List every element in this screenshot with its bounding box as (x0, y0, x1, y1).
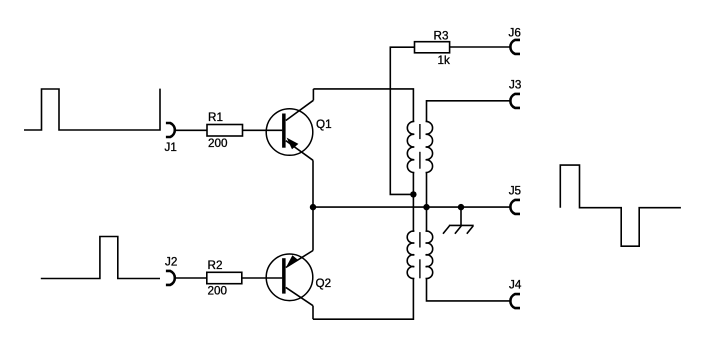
svg-text:J6: J6 (509, 27, 521, 40)
connector J2 (166, 271, 175, 285)
junction node emitters (310, 204, 316, 210)
svg-text:R2: R2 (208, 259, 223, 272)
wire R2 to Q2 base (242, 277, 282, 279)
center rail wire (emitters / secondary tap / ground / J5) (313, 206, 510, 208)
wire J2 to R2 (175, 277, 207, 279)
svg-text:200: 200 (208, 285, 228, 298)
svg-text:J4: J4 (509, 279, 522, 292)
wire Q2 collector to transformer primary bottom (313, 278, 413, 319)
svg-text:1k: 1k (438, 54, 451, 67)
connector J4 (510, 294, 520, 308)
wire secondary bottom to J4 (427, 278, 511, 301)
ground stub wire (460, 207, 462, 225)
wire R1 to Q1 base (243, 129, 283, 131)
wire primary mid section (412, 173, 414, 232)
wire secondary top to J3 (427, 101, 511, 122)
svg-text:Q2: Q2 (316, 277, 332, 290)
output waveform (at J5) (560, 165, 681, 246)
connector J1 (166, 123, 175, 137)
wire secondary mid section (426, 173, 428, 232)
svg-text:J3: J3 (509, 79, 521, 92)
transistor Q1 (266, 100, 313, 160)
svg-text:J5: J5 (509, 185, 522, 198)
svg-text:R3: R3 (434, 30, 449, 43)
connector J5 (510, 200, 520, 214)
wire Q1 collector to transformer primary top (313, 89, 413, 122)
resistor R1 (207, 125, 243, 137)
ground symbol (443, 225, 474, 233)
input waveform 1 (pulse into J1) (24, 89, 160, 130)
transformer T1 primary winding (left, top half) (407, 121, 414, 172)
transformer T1 secondary winding (right, top half) (426, 121, 433, 172)
wire J1 to R1 (175, 129, 207, 131)
svg-text:R1: R1 (208, 111, 223, 124)
svg-text:200: 200 (208, 137, 228, 150)
input waveform 2 (pulse into J2) (41, 237, 160, 279)
wire R3 left down to primary center tap (390, 47, 414, 194)
svg-text:J2: J2 (165, 256, 177, 269)
wire Q2 emitter up to rail (312, 207, 314, 250)
transformer T1 primary winding (left, bottom half) (407, 231, 414, 278)
wire Q2 collector down (312, 306, 314, 320)
junction node secondary center tap (423, 204, 429, 210)
resistor R2 (207, 272, 242, 283)
svg-text:J1: J1 (165, 141, 177, 154)
junction node ground (458, 204, 464, 210)
wire Q1 collector up (312, 89, 314, 100)
transistor Q2 (266, 251, 313, 306)
svg-text:Q1: Q1 (316, 118, 332, 131)
transformer T1 secondary winding (right, bottom half) (426, 231, 433, 278)
resistor R3 (415, 42, 450, 53)
connector J6 (510, 40, 520, 54)
transformer T1 core (dashed) (419, 124, 421, 278)
wire R3 to J6 (450, 46, 511, 48)
junction node primary center tap (410, 191, 416, 197)
connector J3 (510, 94, 520, 108)
wire Q1 emitter down to rail (312, 160, 314, 207)
